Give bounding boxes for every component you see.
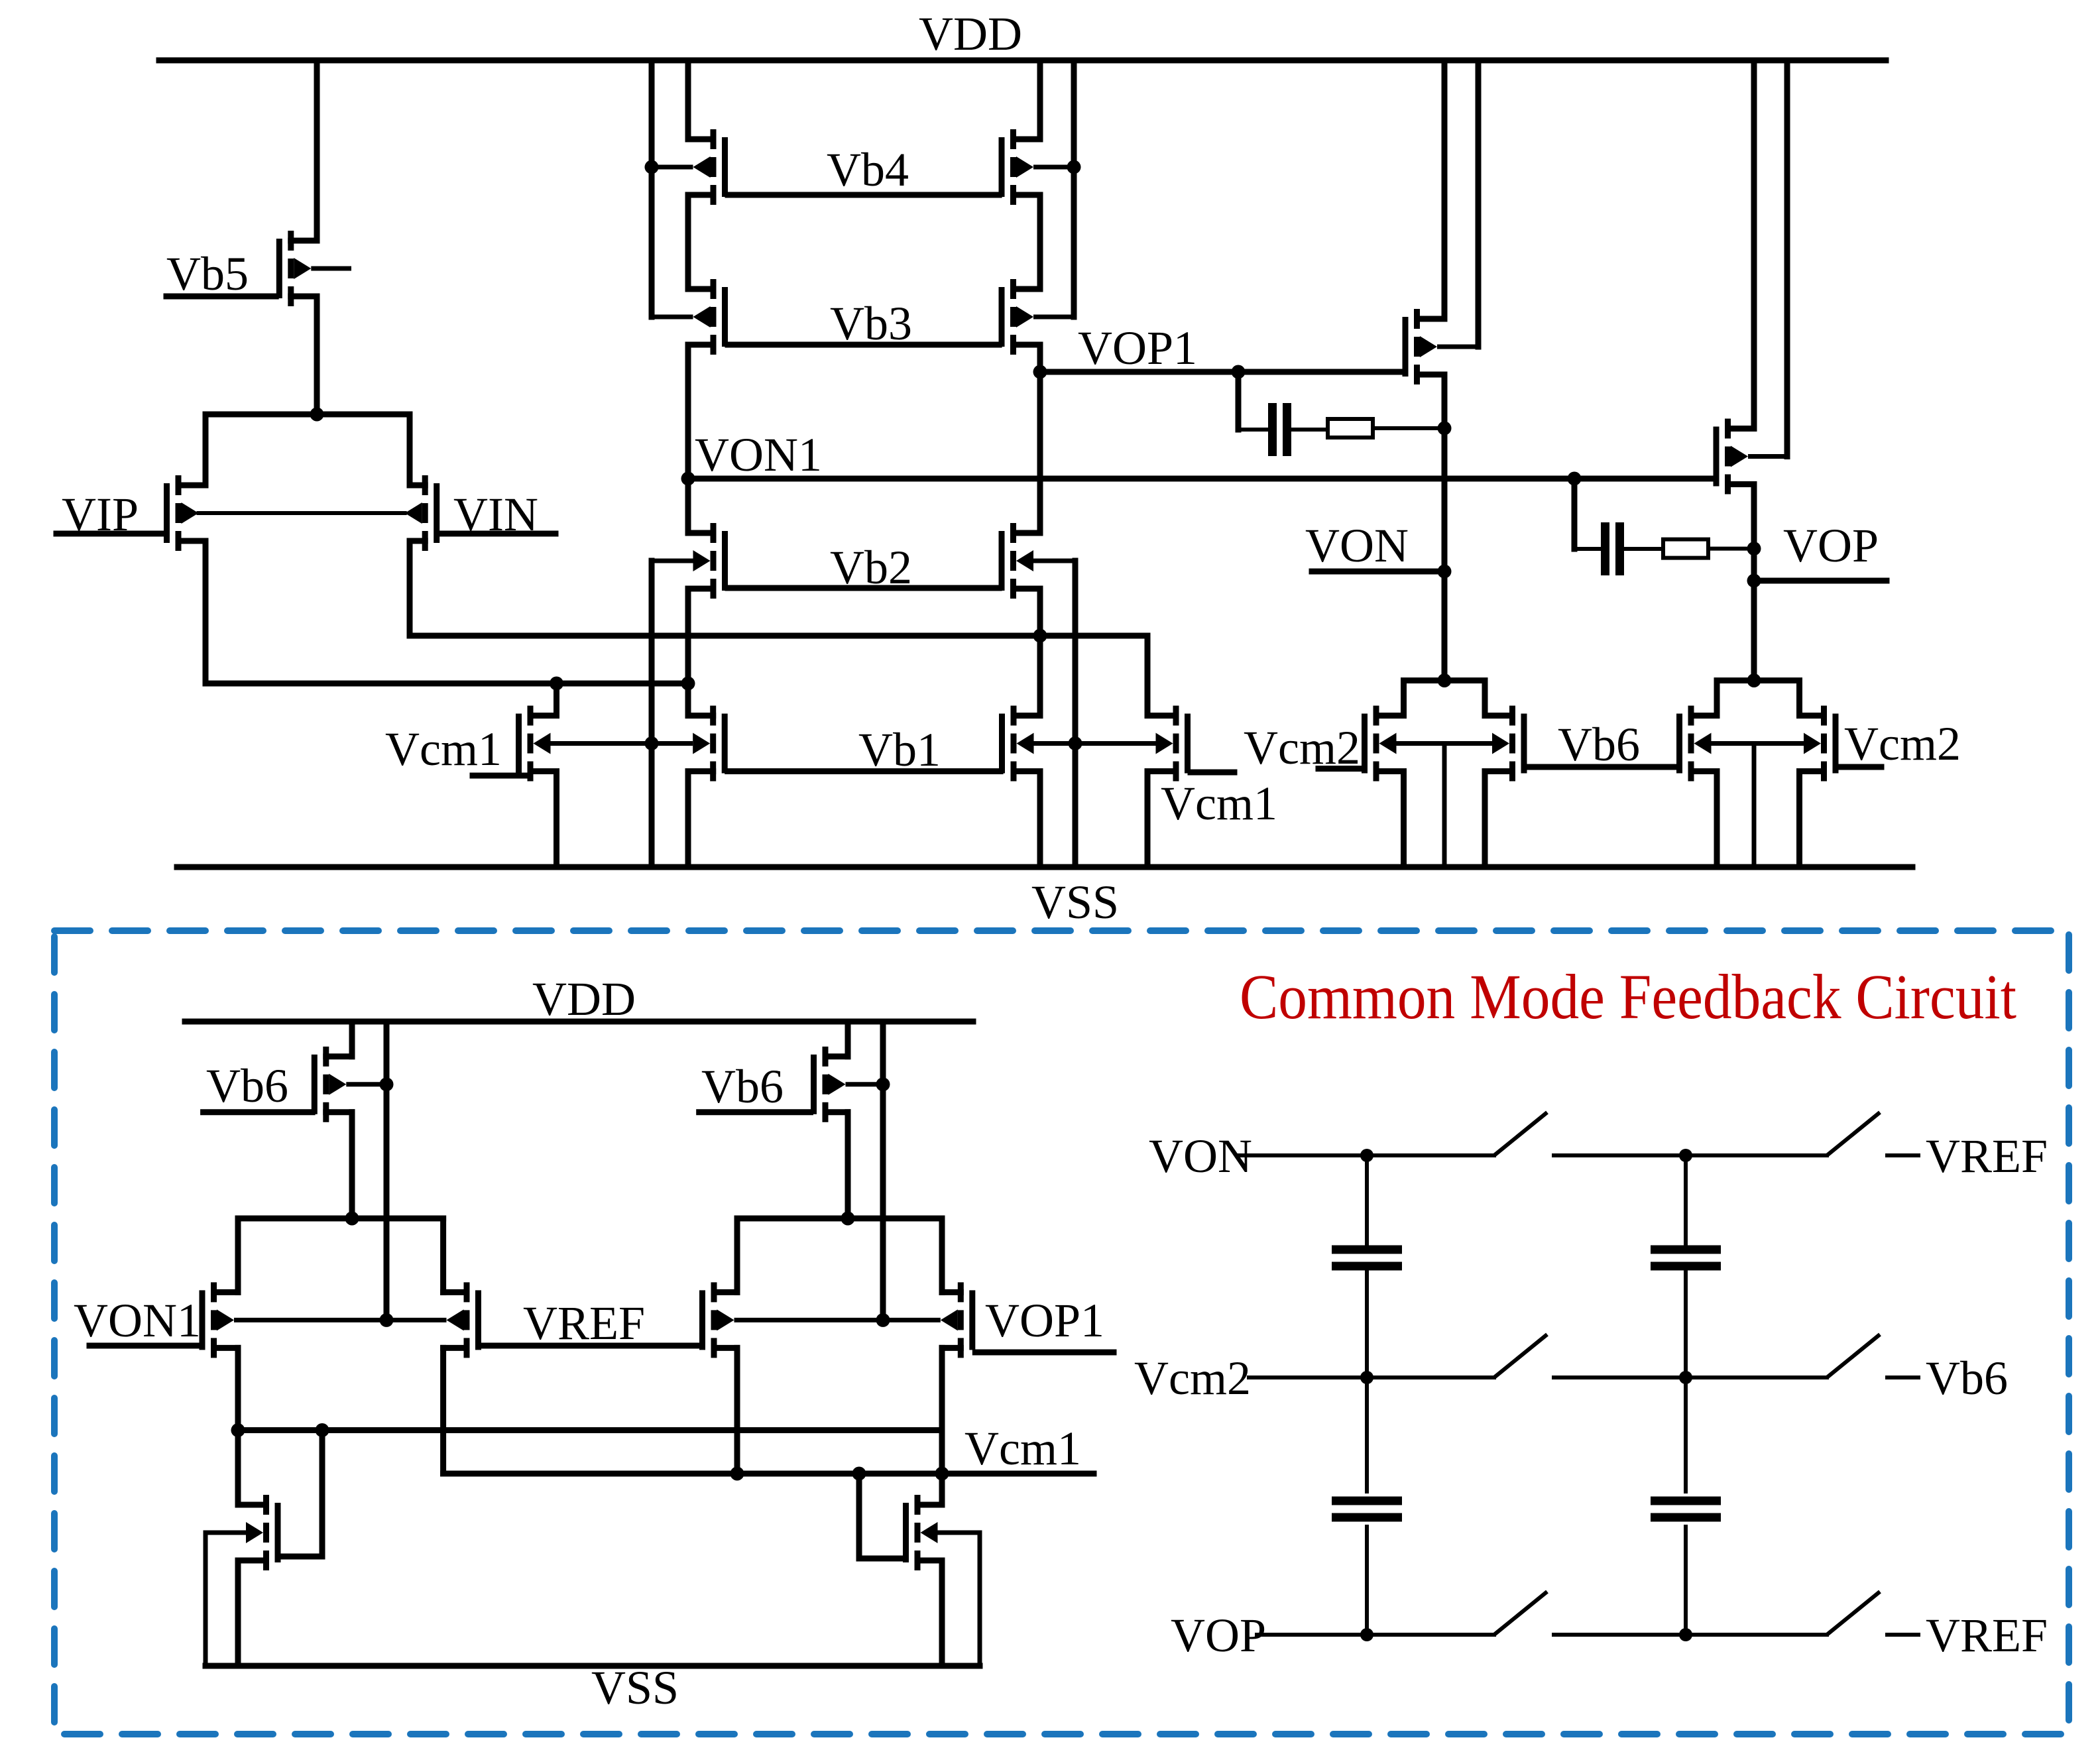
wire Vb5 source to tail node [314,296,320,414]
wire M7 source to VSS [235,1560,241,1666]
switch S1 row VOP [1494,1592,1547,1635]
transistor second stage PMOS right [1714,419,1788,495]
wire Vb1 left drain up [685,683,691,716]
wire VIN gate [439,531,555,537]
wire cap column 2 lower [1684,1377,1688,1492]
wire bridge to VOP1 transistor [939,1218,945,1292]
wire row VON segment 2 [1554,1153,1827,1157]
wire Vb2 gate line [728,585,999,591]
wire Vb6 gate line [1527,764,1676,770]
power rail VSS CMFB [205,1663,980,1669]
wire Vb6 left source to tail CMFB [349,1112,355,1218]
wire right cascode Vb4-Vb3 [1037,195,1043,289]
wire Vb3 right source to VOP1 [1037,345,1043,372]
wire tail to VIN source [407,414,413,485]
wire Vb2 right source down [1037,589,1043,636]
svg-text:Vcm2: Vcm2 [1244,721,1360,774]
svg-text:Vb2: Vb2 [830,541,912,594]
node VON1 junction [681,472,695,486]
transistor Vb1 right [999,706,1075,782]
capacitor C1 lower [1332,1497,1402,1522]
wire VDD to Vb5 drain [314,60,320,241]
transistor Vcm2 output right [1800,706,1839,782]
transistor Vb1 left [652,706,728,782]
wire VON1 gate CMFB [89,1343,199,1349]
wire VOP1 drain down CMFB [939,1348,945,1505]
wire second stage right drain down [1751,485,1757,681]
wire Vb6 right source to tail CMFB [845,1112,851,1218]
transistor mirror NMOS right [903,1495,942,1570]
node tail junction [310,408,324,422]
svg-text:VOP: VOP [1783,519,1879,572]
wire VDD to Vb6 left drain CMFB [349,1022,355,1057]
wire bridge to VREF transistor c [734,1218,740,1292]
transistor second stage PMOS left [1403,309,1479,384]
wire cap column 1 upper lower half [1365,1271,1369,1377]
node row Vcm2 cap1 [1360,1371,1373,1384]
transistor VIP input [164,475,205,551]
transistor Vb3 right [999,279,1075,355]
wire VOP1 rail to Vb2 right drain [1037,372,1043,533]
wire terminal dash VREF row 3 [1887,1633,1918,1637]
wire VON label [1312,569,1444,575]
wire M7 gate link vertical [320,1431,325,1557]
svg-text:Vb6: Vb6 [1558,718,1640,771]
wire Vcm2b source to VSS [1796,772,1802,868]
svg-text:Vb6: Vb6 [1926,1352,2008,1405]
wire mirror node to M7 drain [235,1431,241,1505]
wire VIP gate [56,531,164,537]
bulk arrow Vb6 output right [1694,733,1712,754]
wire terminal dash VREF row 1 [1887,1153,1918,1157]
transistor VIN input [410,475,439,551]
transistor input VREF a CMFB [386,1282,481,1358]
node output bridge right [1747,673,1761,687]
wire Vcm1 left gate [473,773,528,779]
wire VDD to bulk rail right CMFB [880,1022,886,1320]
wire Vb3 gate line [728,342,999,348]
wire resistor to VON rail [1373,426,1444,430]
resistor R right [1663,540,1708,558]
node row VOP cap1 [1360,1628,1373,1641]
wire Vcm1 left source to VSS [554,772,559,868]
capacitor C right [1601,522,1624,575]
transistor Vb2 right [999,523,1076,599]
wire VIP drain down [203,541,209,683]
wire terminal dash Vb6 row 2 [1887,1376,1918,1379]
node VOP1 RC tap [1232,365,1246,379]
wire cap to resistor left [1291,428,1328,432]
capacitor C left [1268,403,1291,456]
node bulk junction left pair CMFB [380,1313,394,1327]
wire VOP1 RC branch down [1236,372,1242,430]
wire Vb4 gate line [728,192,999,198]
wire VON1 RC branch down [1572,479,1578,549]
wire Vb2 left source down [685,589,691,683]
wire cap column 1 lower bottom [1365,1527,1369,1635]
svg-text:VSS: VSS [1031,876,1119,929]
transistor mirror NMOS left [238,1495,281,1570]
transistor Vb6 CMFB right [811,1047,883,1122]
wire Vb1 right drain up [1037,636,1043,716]
switch S1 row VON [1494,1112,1547,1155]
wire output bridge right [1717,677,1800,683]
wire VOP label [1754,578,1887,584]
wire cap to resistor right [1623,547,1663,551]
wire mirror node CMFB [238,1427,942,1433]
node left bulk row junction [645,736,659,750]
node tail right CMFB [841,1212,855,1226]
transistor input VREF c CMFB [699,1282,883,1358]
wire tail to VIP source [203,414,209,485]
node Vcm1 output junction [935,1467,949,1481]
capacitor C2 lower [1651,1497,1721,1522]
node VON label junction [1438,565,1452,579]
transistor input VOP1 CMFB [883,1282,975,1358]
wire row VOP segment 1 [1257,1633,1494,1637]
node output bridge left [1438,673,1452,687]
node Vb6 left bulk junction CMFB [380,1077,394,1091]
svg-text:VOP1: VOP1 [1078,322,1197,375]
wire Vb3 left source to VON1 [685,345,691,479]
resistor R left [1328,419,1373,438]
wire bridge to VON1 transistor [235,1218,241,1292]
wire Vb1 left source to VSS [685,772,691,868]
wire VOP1 gate CMFB [975,1350,1114,1356]
wire VON1 to Vb2 left drain [685,479,691,533]
bulk arrow mirror right [921,1522,938,1543]
wire Vb1 gate line [728,768,1000,774]
wire cap column 1 lower [1365,1377,1369,1492]
wire Vb1 right source to VSS [1037,772,1043,868]
wire VDD to second stage left source [1442,60,1448,319]
wire M8 gate link vertical [856,1474,862,1558]
wire tail bridge right CMFB [737,1216,942,1222]
node folded cascode right [1033,629,1047,643]
wire VIN drain to folded node [410,633,1147,639]
svg-text:Common Mode Feedback Circuit: Common Mode Feedback Circuit [1240,961,2016,1032]
wire VON rail to bridge [1442,571,1448,681]
node VON1 RC tap [1568,472,1582,486]
wire bridge to Vb6b drain [1714,681,1720,716]
bulk arrow mirror left [246,1522,263,1543]
transistor Vb6 output left [1485,706,1527,782]
wire Vcm2a source to VSS [1401,772,1407,868]
svg-text:Vcm2: Vcm2 [1844,717,1961,770]
bulk arrow Vcm2 output left [1379,733,1397,754]
bulk arrow VIP [182,502,199,524]
svg-text:Vb6: Vb6 [206,1059,288,1112]
node row Vcm2 cap2 [1679,1371,1692,1384]
wire Vb6 right gate CMFB [699,1109,811,1115]
wire M7 bulk tie [205,1531,246,1535]
wire cap column 1 upper [1365,1155,1369,1245]
wire bridge to Vcm2b drain [1796,681,1802,716]
transistor Vb5 [276,231,351,306]
svg-text:VREF: VREF [523,1297,645,1350]
wire VREF a drain down CMFB [440,1348,446,1474]
svg-text:VSS: VSS [591,1661,679,1714]
dashed border Common Mode Feedback box [54,931,2069,1734]
wire Vcm2 right gate [1839,764,1882,770]
node row VOP cap2 [1679,1628,1692,1641]
wire VOP1 line [1040,369,1403,375]
capacitor C1 upper [1332,1246,1402,1271]
wire M8 bulk tie [938,1531,980,1535]
wire Vcm1 right source to VSS [1145,772,1151,868]
wire output bridge left [1404,677,1486,683]
node VOP1 junction [1033,365,1047,379]
node right bulk row junction [1069,736,1082,750]
wire tail horizontal [205,412,410,418]
switch S1 row Vcm2 [1494,1334,1547,1377]
wire VIN drain down [407,541,413,636]
wire VDD to right bulk rail [1071,60,1077,317]
svg-text:Vb1: Vb1 [858,723,941,776]
svg-text:VDD: VDD [532,972,636,1025]
node RC left to VON [1438,422,1452,436]
wire VDD to left cascode rail [685,60,691,139]
transistor Vcm1 right [1075,706,1191,782]
svg-text:VON1: VON1 [74,1294,201,1347]
wire row Vcm2 segment 2 [1554,1376,1827,1379]
switch S2 row VOP [1827,1592,1880,1635]
power rail VDD CMFB [185,1019,973,1025]
wire bridge to VREF transistor a [440,1218,446,1292]
bulk arrow Vcm2 output right [1804,733,1821,754]
svg-text:Vb4: Vb4 [827,143,909,196]
wire VOP rail to bridge [1751,581,1757,681]
wire M7 bulk to VSS [204,1533,208,1666]
wire second stage left drain down [1442,375,1448,681]
wire tail bridge left CMFB [238,1216,443,1222]
node mirror gate junction [316,1423,329,1437]
wire M8 gate link horizontal [859,1556,903,1562]
wire M8 source to VSS [939,1560,945,1666]
wire row Vcm2 segment 1 [1249,1376,1494,1379]
node Vb4 right bulk junction [1067,160,1081,174]
switch S2 row VON [1827,1112,1880,1155]
bulk arrow Vb6 output left [1492,733,1509,754]
svg-text:VON1: VON1 [695,428,822,481]
wire Vcm1 right drain up [1145,636,1151,716]
svg-text:Vcm1: Vcm1 [964,1422,1081,1475]
wire cap column 2 upper [1684,1155,1688,1245]
transistor Vcm1 left [516,706,652,782]
transistor Vb6 output right [1676,706,1717,782]
wire output bulk tie left [1397,741,1493,746]
node VREF c drain junction [730,1467,744,1481]
wire RC left chain [1238,428,1269,432]
wire VDD to second stage right source [1751,60,1757,429]
wire cap column 2 lower bottom [1684,1527,1688,1635]
node row VON cap2 [1679,1149,1692,1162]
svg-text:VON: VON [1305,519,1409,572]
svg-text:Vb5: Vb5 [166,247,249,300]
transistor Vb6 CMFB left [312,1047,386,1122]
capacitor C2 upper [1651,1246,1721,1271]
wire row VON segment 1 [1238,1153,1494,1157]
svg-text:VOP1: VOP1 [985,1294,1104,1347]
power rail VSS [177,864,1912,870]
wire Vb6 left gate CMFB [204,1109,313,1115]
node RC right to VOP [1747,542,1761,556]
wire Vcm1 right gate stub [1191,770,1234,776]
wire VON1 line [688,476,1714,482]
wire VDD to second stage right bulk [1784,60,1790,457]
wire VDD to left bulk rail [649,60,655,317]
power rail VDD [159,58,1886,64]
wire bridge to Vcm2a drain [1401,681,1407,716]
node Vb6 right bulk junction CMFB [876,1077,890,1091]
switch S2 row Vcm2 [1827,1334,1880,1377]
wire output bulk right to VSS [1752,744,1757,868]
svg-text:VOP: VOP [1171,1609,1266,1662]
svg-text:VDD: VDD [919,7,1022,60]
wire cap column 2 upper lower half [1684,1271,1688,1377]
transistor Vcm2 output left [1362,706,1404,782]
wire output bulk left to VSS [1442,744,1447,868]
node Vcm1 left drain junction [550,677,563,691]
wire Vb6b source to VSS [1714,772,1720,868]
svg-text:Vb3: Vb3 [830,297,912,350]
svg-text:Vb6: Vb6 [701,1060,784,1113]
wire left bulk rail to VSS [649,561,655,867]
wire VIP drain to folded node [205,681,688,687]
svg-text:Vcm2: Vcm2 [1134,1352,1251,1405]
wire Vcm2 left gate [1318,766,1362,772]
node Vb4 left bulk junction [645,160,659,174]
wire VDD to Vb6 right drain CMFB [845,1022,851,1057]
wire RC right chain [1574,547,1604,551]
wire Vcm1 line CMFB [443,1471,1094,1477]
transistor Vb4 left [652,129,728,205]
node mirror left junction [231,1423,245,1437]
wire VON1 drain down CMFB [235,1348,241,1430]
transistor Vb4 right [999,129,1075,205]
wire Vb5 gate [166,294,276,300]
svg-text:Vcm1: Vcm1 [1161,777,1277,830]
wire M8 bulk to VSS [978,1533,982,1666]
node folded cascode left [681,677,695,691]
wire VDD to right cascode rail [1037,60,1043,139]
svg-text:VREF: VREF [1926,1609,2048,1662]
transistor Vb3 left [652,279,728,355]
node tail left CMFB [345,1212,359,1226]
wire left cascode Vb4-Vb3 [685,195,691,289]
wire Vcm1 left drain up [554,683,559,716]
bulk arrow VIN [405,502,422,524]
wire VDD to bulk rail left CMFB [384,1022,390,1320]
node bulk junction right pair CMFB [876,1313,890,1327]
svg-text:VIN: VIN [453,488,538,541]
wire output bulk tie right [1712,741,1804,746]
transistor input VON1 CMFB [200,1282,387,1358]
wire Vb6a source to VSS [1482,772,1488,868]
wire row VOP segment 2 [1554,1633,1827,1637]
svg-text:Vcm1: Vcm1 [385,723,502,776]
wire resistor to VOP rail [1708,547,1754,551]
wire VDD to second stage left bulk [1476,60,1482,347]
node VOP label junction [1747,574,1761,588]
wire bridge to Vb6a drain [1482,681,1488,716]
wire M7 gate link horizontal [280,1554,322,1560]
wire right bulk rail to VSS [1073,561,1079,867]
node row VON cap1 [1360,1149,1373,1162]
wire bulk tie VIP-VIN [199,511,405,515]
svg-text:VREF: VREF [1926,1130,2048,1183]
wire VREF gate line CMFB [481,1343,699,1349]
transistor Vb2 left [652,523,728,599]
wire VREF c drain down CMFB [734,1348,740,1474]
node M8 gate junction [852,1467,866,1481]
svg-text:VIP: VIP [62,488,139,541]
